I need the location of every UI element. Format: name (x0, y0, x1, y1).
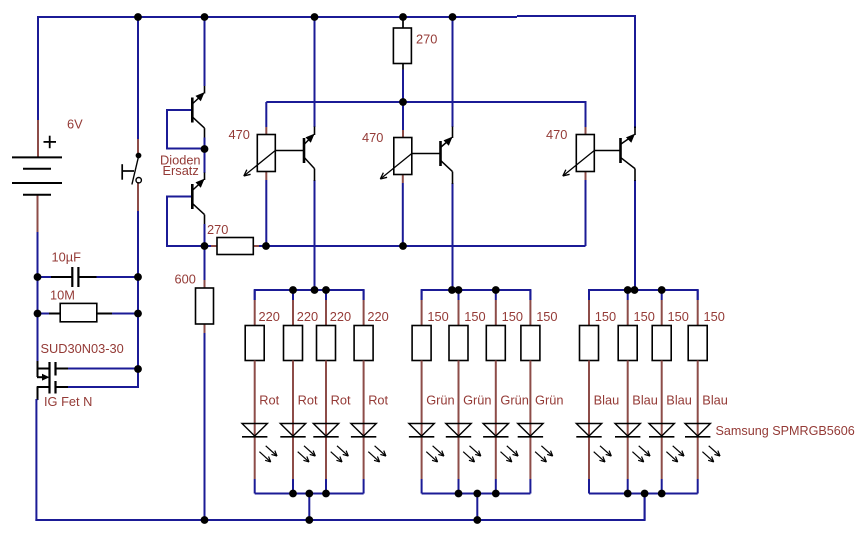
svg-text:Rot: Rot (259, 392, 279, 407)
svg-text:470: 470 (546, 127, 567, 142)
svg-text:Blau: Blau (632, 392, 658, 407)
svg-text:270: 270 (207, 222, 228, 237)
svg-text:150: 150 (595, 309, 616, 324)
svg-text:IG Fet N: IG Fet N (44, 394, 92, 409)
svg-text:Samsung SPMRGB5606: Samsung SPMRGB5606 (716, 424, 855, 438)
svg-text:150: 150 (502, 309, 523, 324)
svg-text:600: 600 (175, 272, 196, 287)
svg-text:Blau: Blau (666, 392, 692, 407)
svg-text:10M: 10M (50, 288, 75, 303)
svg-text:Rot: Rot (331, 392, 351, 407)
svg-text:10µF: 10µF (52, 250, 82, 265)
svg-text:150: 150 (634, 309, 655, 324)
svg-text:220: 220 (297, 309, 318, 324)
svg-text:270: 270 (416, 32, 437, 47)
svg-text:Grün: Grün (463, 392, 491, 407)
svg-text:Blau: Blau (702, 392, 728, 407)
svg-text:Rot: Rot (368, 392, 388, 407)
svg-text:150: 150 (704, 309, 725, 324)
svg-text:Grün: Grün (535, 392, 563, 407)
svg-text:470: 470 (229, 127, 250, 142)
svg-text:470: 470 (362, 130, 383, 145)
svg-text:220: 220 (330, 309, 351, 324)
svg-text:220: 220 (367, 309, 388, 324)
svg-text:150: 150 (536, 309, 557, 324)
svg-text:150: 150 (668, 309, 689, 324)
svg-text:Ersatz: Ersatz (163, 163, 199, 178)
svg-text:Rot: Rot (298, 392, 318, 407)
svg-text:150: 150 (427, 309, 448, 324)
svg-text:SUD30N03-30: SUD30N03-30 (41, 341, 124, 356)
svg-text:6V: 6V (67, 117, 83, 132)
svg-text:Grün: Grün (426, 392, 454, 407)
svg-text:Blau: Blau (594, 392, 620, 407)
svg-text:Grün: Grün (500, 392, 528, 407)
svg-text:220: 220 (259, 309, 280, 324)
svg-text:150: 150 (464, 309, 485, 324)
